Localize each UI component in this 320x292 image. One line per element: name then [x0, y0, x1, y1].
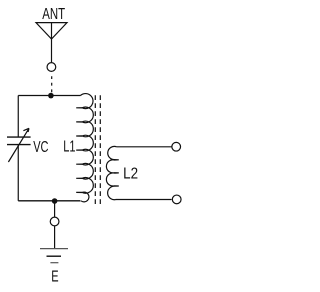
- wire bottom node to earth terminal: [54, 201, 56, 217]
- antenna terminal circle: [47, 63, 56, 72]
- dashed wire antenna to node: [51, 76, 53, 92]
- label ANT: [42, 4, 65, 22]
- ground bar 2: [47, 255, 62, 257]
- label E: [51, 267, 58, 284]
- wire output bottom: [116, 199, 172, 201]
- ground bar 1: [40, 248, 68, 250]
- node junction bottom: [52, 198, 58, 204]
- wire terminal to ground: [54, 226, 56, 248]
- label L1: [63, 137, 75, 154]
- capacitor VC top plate: [7, 136, 31, 138]
- wire top horizontal: [18, 95, 80, 97]
- wire bottom horizontal: [18, 200, 80, 202]
- capacitor VC bottom plate: [7, 144, 31, 146]
- wire left vertical lower: [17, 145, 19, 201]
- label L2: [123, 166, 138, 183]
- label VC: [33, 138, 48, 155]
- svg-text:L1: L1: [63, 137, 75, 154]
- transformer core dashed line right: [99, 95, 101, 204]
- antenna ANT symbol: [36, 23, 67, 39]
- capacitor VC arrow: [8, 128, 29, 162]
- transformer core dashed line left: [94, 95, 96, 204]
- svg-text:L2: L2: [123, 166, 138, 183]
- node junction top: [48, 93, 54, 99]
- wire left vertical upper: [17, 96, 19, 138]
- svg-text:E: E: [51, 267, 58, 284]
- antenna stem wire: [51, 23, 53, 63]
- inductor L1 coil: [76, 94, 93, 202]
- ground bar 3: [50, 262, 58, 264]
- inductor L2 coil: [106, 146, 118, 199]
- svg-text:VC: VC: [33, 138, 48, 155]
- output terminal bottom circle: [172, 195, 181, 204]
- wire output top: [117, 146, 172, 148]
- svg-text:ANT: ANT: [42, 4, 65, 22]
- output terminal top circle: [172, 142, 181, 151]
- earth terminal circle: [50, 217, 59, 226]
